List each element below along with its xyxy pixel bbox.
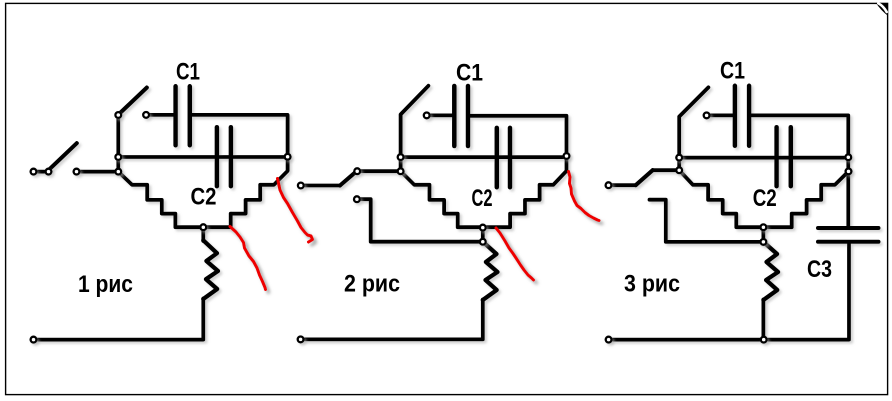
svg-text:C1: C1: [176, 59, 200, 86]
svg-text:2 рис: 2 рис: [344, 270, 400, 297]
svg-text:3 рис: 3 рис: [624, 271, 680, 298]
svg-text:C1: C1: [456, 60, 483, 87]
svg-text:C2: C2: [753, 185, 777, 212]
svg-text:C3: C3: [807, 256, 832, 283]
svg-text:C1: C1: [720, 58, 745, 85]
svg-text:C2: C2: [472, 185, 493, 212]
svg-text:C2: C2: [191, 184, 217, 211]
svg-text:1 рис: 1 рис: [78, 271, 133, 298]
